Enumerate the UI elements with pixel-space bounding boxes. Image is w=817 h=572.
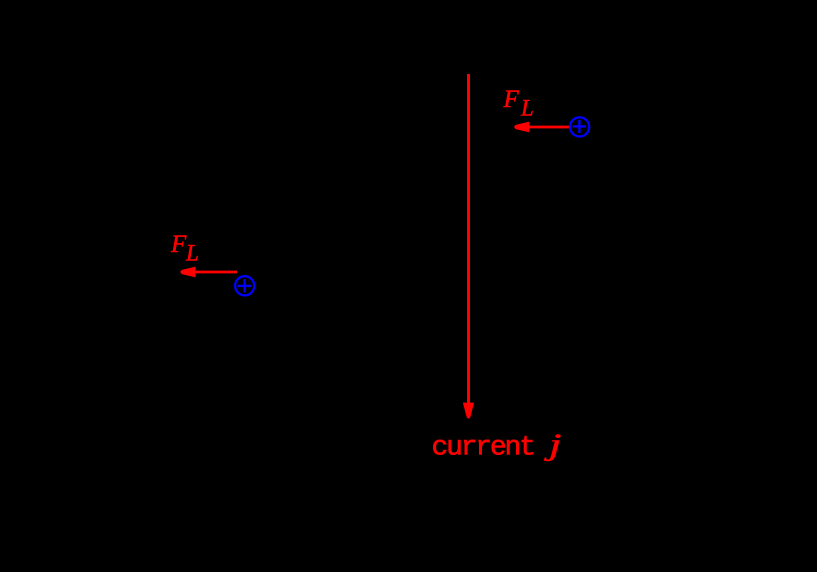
svg-text:F: F bbox=[170, 231, 187, 258]
positive test charge q1 (top, circled plus) bbox=[570, 117, 589, 136]
positive test charge q2 (left, circled plus) bbox=[235, 276, 254, 295]
label: current j bbox=[432, 428, 562, 463]
force arrow F_L on left charge (points left) bbox=[180, 267, 237, 278]
force arrow F_L on top charge (points left) bbox=[514, 122, 570, 133]
svg-text:current: current bbox=[432, 433, 534, 464]
svg-text:L: L bbox=[520, 95, 534, 120]
wire / current arrow j (vertical red arrow) bbox=[463, 74, 474, 419]
label F_L (left charge force) bbox=[170, 231, 199, 266]
label F_L (top charge force) bbox=[503, 86, 534, 121]
svg-text:L: L bbox=[185, 240, 199, 265]
svg-text:F: F bbox=[503, 86, 520, 113]
